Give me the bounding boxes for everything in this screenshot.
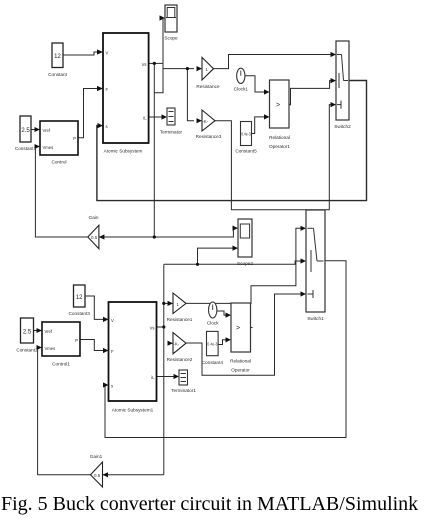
svg-text:Resistance3: Resistance3: [196, 134, 222, 139]
scope Scope2: [238, 219, 252, 257]
svg-text:Terminator: Terminator: [160, 130, 183, 135]
arrow into Scope2 in2: [233, 246, 239, 251]
constant Constant1 (2.5): [20, 116, 31, 142]
svg-text:Vmes: Vmes: [43, 145, 54, 150]
wire Gain1 input from bus: [103, 474, 164, 476]
junction Vs branch node: [153, 62, 156, 65]
wire RelOp1 out to Switch2 middle: [289, 81, 332, 105]
wire Constant1 to Vref: [31, 129, 37, 131]
wire branch to Resistance3: [187, 69, 194, 121]
arrow into Resistance1: [168, 301, 174, 306]
constant Constant2 (2.5): [21, 318, 34, 343]
junction Vs1 bus node: [162, 325, 165, 328]
arrow into RelOp1 bottom: [264, 114, 270, 119]
svg-text:Operator1: Operator1: [269, 144, 290, 149]
svg-text:Scope2: Scope2: [237, 261, 253, 266]
svg-text:Scope: Scope: [164, 36, 178, 41]
svg-text:Clock: Clock: [207, 321, 219, 326]
arrow into Gain (left): [99, 234, 105, 239]
junction Resistance1 branch node: [162, 302, 165, 305]
arrow into Switch2 middle: [331, 78, 337, 83]
gain Resistance2: [173, 333, 186, 354]
junction Gain row node: [153, 235, 156, 238]
arrow into Vmes1: [37, 345, 43, 350]
svg-text:s: s: [106, 124, 108, 129]
arrow into Resistance3: [197, 118, 203, 123]
terminator Terminator1: [179, 370, 188, 385]
svg-text:F: F: [111, 349, 114, 354]
svg-text:Constant: Constant: [48, 72, 67, 77]
wire Clock1 to RelOp1: [245, 76, 266, 92]
clock Clock: [209, 302, 217, 318]
wire Vs output line: [149, 62, 163, 64]
constant Constant (12): [52, 43, 63, 68]
arrow into Switch1 bottom: [301, 291, 307, 296]
arrow into Gain1 (left): [103, 472, 109, 477]
wire Gain1 output to Vmes1 feedback: [38, 348, 91, 475]
svg-text:Resistance: Resistance: [196, 84, 220, 89]
wire Resistance out to Switch2 top: [214, 55, 333, 69]
svg-text:12: 12: [76, 295, 83, 301]
arrow into RelOp1 top: [264, 89, 270, 94]
wire Clock to RelOp: [217, 311, 228, 315]
svg-text:Constant1: Constant1: [15, 146, 37, 151]
wire iL1 to Terminator1: [157, 376, 177, 378]
arrow into Resistance2: [168, 341, 174, 346]
arrow into subsystem1 s: [103, 382, 109, 387]
arrow into Switch1 middle: [301, 258, 307, 263]
svg-text:Gain: Gain: [89, 215, 99, 220]
gain Gain1 (left pointing): [91, 462, 103, 487]
svg-text:>: >: [236, 325, 240, 332]
arrow into Switch2 bottom: [331, 102, 337, 107]
svg-text:Vref: Vref: [45, 329, 53, 334]
wire descent A Vs to Gain row: [153, 63, 155, 237]
arrow into Switch2 top: [331, 52, 337, 57]
block Relational Operator: [231, 303, 251, 352]
svg-text:12: 12: [54, 54, 61, 60]
constant Constant3 (12): [74, 285, 86, 307]
svg-text:Constant2: Constant2: [16, 348, 38, 353]
svg-text:Control1: Control1: [52, 362, 70, 367]
wire RelOp out stub: [251, 327, 253, 329]
svg-text:Switch2: Switch2: [334, 124, 351, 129]
block Relational Operator1: [270, 80, 292, 128]
wire Gain output to Vmes feedback: [35, 147, 87, 238]
gain Resistance3: [202, 110, 215, 131]
svg-text:Relational: Relational: [230, 359, 251, 364]
arrow into RelOp bottom: [226, 337, 232, 342]
wire long line to Switch1 middle: [164, 261, 302, 264]
arrow into F1: [103, 348, 109, 353]
svg-text:Operator: Operator: [231, 368, 250, 373]
arrow into subsystem s: [98, 123, 104, 128]
svg-text:Atomic Subsystem: Atomic Subsystem: [104, 148, 143, 153]
svg-text:Relational: Relational: [269, 135, 290, 140]
block Control: [40, 121, 78, 155]
wire Vs branch down jog: [154, 63, 163, 92]
arrow into V: [97, 49, 103, 54]
block Atomic Subsystem1: [109, 302, 157, 401]
constant Constant4 (0.4e-3): [207, 331, 219, 355]
switch Switch1: [306, 210, 325, 312]
svg-text:0.4e-3: 0.4e-3: [241, 132, 251, 137]
svg-text:Vmes: Vmes: [45, 346, 56, 351]
svg-text:0.5: 0.5: [94, 473, 101, 478]
block Atomic Subsystem: [103, 33, 149, 143]
svg-text:Vs: Vs: [142, 62, 147, 67]
arrow into Scope: [160, 15, 166, 20]
arrowheads lower: [37, 226, 307, 478]
terminator Terminator: [167, 108, 175, 125]
block Control1: [42, 322, 80, 356]
svg-text:Control: Control: [51, 160, 66, 165]
svg-text:Vref: Vref: [43, 128, 51, 133]
svg-text:2.5: 2.5: [23, 330, 32, 336]
wire iL to Terminator: [149, 116, 164, 118]
gain Gain (left pointing): [88, 225, 99, 249]
svg-text:0.4e-3: 0.4e-3: [207, 342, 217, 347]
wire Resistance3 out to Switch2 bottom: [215, 105, 332, 210]
svg-text:P: P: [75, 338, 78, 343]
constant Constant5 (0.4e-3): [241, 122, 252, 146]
svg-text:0.5: 0.5: [91, 235, 98, 240]
wire Control1 P to F1: [80, 340, 105, 351]
wire Constant5 to RelOp1: [252, 117, 266, 134]
wire Constant3 to V1: [85, 296, 105, 319]
arrow into RelOp top: [226, 313, 232, 318]
wire Vs to Scope riser: [162, 18, 164, 63]
arrow into Vref: [35, 127, 41, 132]
wire Vs to Resistance: [163, 68, 194, 70]
wire Constant to V: [63, 52, 100, 55]
svg-text:Resistance2: Resistance2: [167, 357, 193, 362]
svg-text:Terminator1: Terminator1: [171, 388, 196, 393]
wire Control P to F: [78, 89, 100, 138]
svg-text:>: >: [276, 102, 280, 109]
svg-text:-K-: -K-: [174, 342, 180, 347]
svg-text:Constant5: Constant5: [235, 149, 257, 154]
arrowheads upper: [35, 15, 337, 250]
switch Switch2: [336, 41, 349, 120]
svg-text:Resistance1: Resistance1: [167, 317, 193, 322]
svg-text:s: s: [111, 384, 113, 389]
wire Constant4 to RelOp: [218, 340, 227, 345]
svg-text:Gain1: Gain1: [90, 454, 103, 459]
svg-text:V: V: [106, 51, 109, 56]
svg-text:-K-: -K-: [203, 119, 209, 124]
junction Scope2 input2 branch node: [196, 263, 199, 266]
wire branch to Resistance1: [164, 302, 170, 304]
wire Resistance2 out to Switch1 bottom: [186, 294, 302, 375]
arrow into Vref1: [37, 328, 43, 333]
svg-text:2.5: 2.5: [21, 128, 30, 134]
svg-text:P: P: [73, 136, 76, 141]
wire Gain row horizontal: [99, 228, 235, 237]
clock Clock1: [237, 68, 245, 83]
arrow into F: [97, 86, 103, 91]
arrow into Terminator: [162, 114, 168, 119]
svg-text:Switch1: Switch1: [307, 316, 324, 321]
wire Scope2 input2 riser: [198, 248, 235, 264]
scope Scope: [165, 5, 177, 32]
svg-text:Constant4: Constant4: [202, 360, 224, 365]
svg-text:Atomic Subsystem1: Atomic Subsystem1: [112, 408, 154, 413]
wire Switch1 out to s1 port: [104, 261, 346, 438]
svg-text:Constant3: Constant3: [69, 311, 91, 316]
gain Resistance1: [173, 293, 186, 314]
wire main vertical Vs1 bus: [163, 264, 165, 475]
wire Switch2 out to subsystem s port: [97, 81, 367, 201]
arrow into Resistance: [197, 66, 203, 71]
svg-text:Vs: Vs: [150, 326, 155, 331]
arrow into V1: [103, 317, 109, 322]
arrow into Vmes: [35, 144, 41, 149]
svg-text:F: F: [106, 87, 109, 92]
wire Constant2 to Vref1: [34, 330, 40, 332]
arrow into Scope2 in1: [233, 226, 239, 231]
arrow into Terminator1: [174, 374, 180, 379]
wire Resistance1 out to Switch1 top: [186, 228, 302, 303]
junction Resistance3 branch node: [186, 67, 189, 70]
arrow into Switch1 top: [301, 226, 307, 231]
wire Vs1 stub: [157, 326, 164, 328]
svg-text:V: V: [111, 318, 114, 323]
svg-text:Fig. 5 Buck converter circuit: Fig. 5 Buck converter circuit in MATLAB/…: [1, 493, 418, 515]
svg-text:Clock1: Clock1: [234, 87, 249, 92]
gain Resistance: [202, 57, 214, 80]
